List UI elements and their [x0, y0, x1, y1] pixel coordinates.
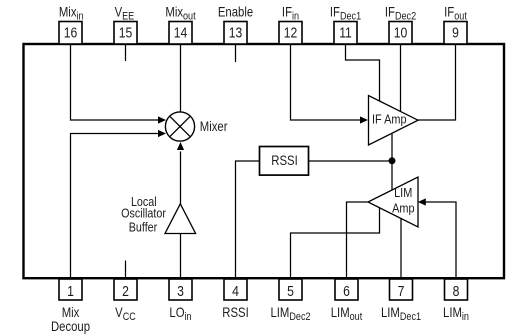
svg-text:16: 16 — [64, 25, 78, 41]
pin 1 box — [59, 279, 82, 300]
svg-text:LIMDec1: LIMDec1 — [381, 305, 421, 323]
svg-text:9: 9 — [452, 25, 459, 41]
IC outline — [24, 44, 505, 278]
svg-text:4: 4 — [232, 283, 239, 299]
IF amp triangle — [369, 96, 419, 146]
pin 5 box — [279, 279, 302, 300]
svg-text:Buffer: Buffer — [129, 220, 158, 235]
wire pin 4 to RSSI box — [236, 161, 260, 277]
wire pin 13 stub — [235, 45, 237, 62]
svg-text:IF Amp: IF Amp — [372, 112, 407, 127]
pin 4 box — [224, 279, 247, 300]
svg-text:LOin: LOin — [169, 305, 191, 323]
svg-text:14: 14 — [174, 25, 188, 41]
pin 7 box — [390, 279, 413, 300]
pin 2 box — [114, 279, 137, 300]
pin 10 box — [389, 22, 412, 45]
svg-text:RSSI: RSSI — [222, 305, 248, 320]
svg-text:IFin: IFin — [282, 5, 299, 23]
svg-text:LIMin: LIMin — [443, 305, 469, 323]
pin 14 box — [169, 22, 192, 45]
svg-text:Amp: Amp — [392, 200, 415, 215]
pin 9 box — [444, 22, 467, 45]
wire pin 10 to IF amp top edge — [400, 45, 402, 111]
pin 13 box — [224, 22, 247, 45]
svg-text:Decoup: Decoup — [51, 319, 90, 334]
wire LO buffer output to mixer — [180, 152, 182, 205]
arrowhead into mixer bottom — [177, 142, 184, 150]
pin 3 box — [169, 279, 192, 300]
svg-text:LIM: LIM — [394, 185, 412, 200]
wire pin 8 to LIM amp input — [425, 202, 456, 277]
wire pin 11 to IF amp top edge — [346, 45, 380, 102]
wire pin 3 to LO buffer — [180, 234, 182, 278]
pin 12 box — [279, 22, 302, 45]
wire pin 15 stub — [125, 45, 127, 61]
svg-text:Oscillator: Oscillator — [121, 205, 166, 220]
pin 8 box — [445, 279, 468, 300]
pin 6 box — [335, 279, 358, 300]
arrowhead mixer lower input — [158, 130, 166, 137]
pin 11 box — [334, 22, 357, 45]
svg-text:11: 11 — [339, 25, 352, 41]
svg-text:15: 15 — [119, 25, 133, 41]
mixer circle — [165, 112, 194, 141]
svg-text:IFDec2: IFDec2 — [385, 5, 417, 23]
svg-text:Mixin: Mixin — [59, 5, 84, 23]
svg-text:6: 6 — [343, 283, 350, 299]
svg-text:3: 3 — [177, 283, 184, 299]
wire RSSI box to junction — [309, 160, 393, 162]
junction dot — [389, 157, 396, 164]
svg-text:VEE: VEE — [115, 5, 135, 23]
svg-text:8: 8 — [453, 283, 460, 299]
wire pin 6 to LIM amp output — [347, 202, 369, 277]
svg-text:5: 5 — [287, 283, 294, 299]
mixer X — [170, 116, 191, 137]
svg-text:Mix: Mix — [62, 305, 80, 320]
wire pin 2 stub — [125, 261, 127, 278]
wire pin 16 to mixer upper input — [71, 45, 159, 120]
svg-text:Mixer: Mixer — [200, 119, 228, 134]
wire IF amp output tap to LIM amp — [391, 134, 393, 191]
svg-text:Mixout: Mixout — [165, 5, 195, 23]
wire pin 1 to mixer lower input — [71, 134, 159, 278]
svg-text:2: 2 — [122, 283, 129, 299]
LIM amp triangle — [368, 177, 418, 227]
wire pin 12 to IF amp input — [291, 45, 361, 120]
RSSI box — [260, 147, 309, 176]
svg-text:LIMout: LIMout — [331, 305, 363, 323]
pin 15 box — [114, 22, 137, 45]
wire pin 5 to LIM amp bottom edge — [291, 208, 380, 277]
svg-text:1: 1 — [67, 283, 74, 299]
arrowhead mixer upper input — [158, 116, 166, 123]
svg-text:IFout: IFout — [444, 5, 467, 23]
pin 16 box — [59, 22, 82, 45]
svg-text:13: 13 — [229, 25, 243, 41]
wire pin 9 to IF amp output — [418, 45, 456, 120]
arrowhead IF amp input — [360, 116, 368, 123]
local oscillator buffer triangle — [165, 204, 196, 234]
wire pin 7 to LIM amp bottom edge — [400, 219, 402, 278]
svg-text:Enable: Enable — [218, 5, 253, 20]
svg-text:VCC: VCC — [115, 305, 136, 323]
svg-text:10: 10 — [394, 25, 408, 41]
svg-text:LIMDec2: LIMDec2 — [270, 305, 310, 323]
svg-text:IFDec1: IFDec1 — [330, 5, 362, 23]
svg-text:7: 7 — [398, 283, 405, 299]
wire pin 14 to mixer top — [180, 45, 182, 112]
svg-text:12: 12 — [284, 25, 298, 41]
svg-text:RSSI: RSSI — [271, 153, 297, 168]
arrowhead LIM amp input — [418, 198, 426, 205]
